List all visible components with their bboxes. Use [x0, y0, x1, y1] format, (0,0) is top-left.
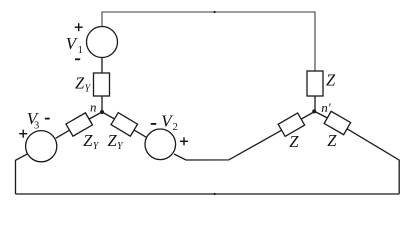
svg-text:Y: Y: [117, 141, 124, 152]
svg-text:Z: Z: [108, 131, 118, 150]
wire n to V3 (left source leg): [56, 112, 102, 138]
wire bottom right riser to load right leg: [315, 112, 400, 195]
wire ZY rect to node n: [101, 96, 103, 112]
svg-text:Y: Y: [93, 141, 100, 152]
svg-text:Z: Z: [327, 131, 337, 150]
impedance Z (load left diagonal): [278, 113, 304, 136]
junction tick on top wire: [214, 11, 216, 13]
wire V2 tail to load left leg: [174, 112, 315, 161]
label - of V3: [45, 118, 50, 120]
impedance Z (load right diagonal): [324, 111, 350, 134]
svg-text:n': n': [321, 100, 331, 115]
voltage source V3: [26, 131, 57, 162]
svg-text:Z: Z: [289, 132, 299, 151]
impedance ZY (source phase 2, right diagonal): [111, 113, 137, 137]
label + of V1: [75, 23, 83, 31]
svg-text:3: 3: [34, 121, 39, 132]
svg-text:2: 2: [173, 122, 178, 133]
wire load Z to node n': [314, 96, 316, 112]
wire n to V2 (right source leg): [102, 112, 147, 138]
svg-text:Y: Y: [85, 84, 92, 95]
node n' junction dot: [312, 109, 316, 113]
svg-text:1: 1: [78, 45, 83, 56]
label + of V3: [19, 130, 27, 138]
voltage source V1: [87, 27, 118, 58]
svg-text:Z: Z: [75, 74, 85, 93]
label - of V1: [75, 58, 80, 60]
impedance ZY (source phase 3, left diagonal): [66, 113, 92, 136]
voltage source V2: [145, 129, 176, 160]
wire V3 to bottom left corner: [16, 153, 29, 194]
svg-text:Z: Z: [83, 131, 93, 150]
impedance ZY (source phase 1): [94, 73, 110, 96]
wire top loop from V1 to load Z: [102, 12, 315, 71]
svg-text:n: n: [90, 100, 97, 115]
junction tick on bottom wire: [214, 193, 216, 195]
impedance Z (load phase a, vertical): [307, 71, 323, 96]
node n junction dot: [100, 110, 104, 114]
label + of V2: [180, 137, 188, 145]
svg-text:Z: Z: [326, 71, 336, 90]
wire bottom return: [16, 193, 400, 195]
wire V1 to ZY rect: [101, 58, 103, 74]
label - of V2: [151, 123, 156, 125]
